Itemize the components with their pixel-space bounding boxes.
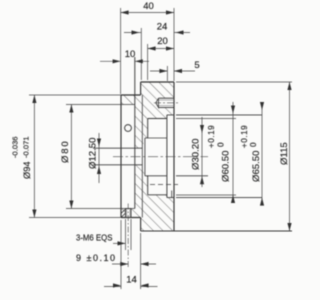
dim Ø80: line and arrows	[70, 105, 72, 209]
part outline: hub left face	[120, 95, 122, 218]
svg-text:10: 10	[125, 49, 136, 60]
recess Ø65.5 top wall + extension right	[167, 114, 262, 116]
dim 10: line and outside arrows	[100, 60, 149, 62]
dim Ø60.50: line	[232, 102, 234, 201]
svg-text:Ø30.20: Ø30.20	[191, 139, 202, 170]
dim Ø60.50: outside arrows	[231, 106, 235, 204]
dim 24: extension left (flange face extended)	[140, 28, 142, 80]
dim 20: extension left	[147, 44, 149, 80]
bore Ø80 top wall + extension left	[66, 104, 135, 106]
bore Ø12.5 top wall + extension left	[93, 147, 142, 149]
part outline: hub bottom edge	[121, 217, 141, 219]
bore step verticals at x=147.7	[147, 119, 149, 195]
bore Ø60.5 bottom wall	[148, 194, 167, 196]
svg-text:Ø12.50: Ø12.50	[88, 138, 99, 169]
dim 20: line and arrows	[148, 48, 174, 50]
tapped hole M6 bottom: thread lines	[127, 209, 130, 218]
tapped hole M6 bottom: top closing line	[126, 208, 132, 210]
flange top extension for Ø115	[176, 81, 292, 83]
recess chamfer line	[171, 191, 173, 198]
chamfer ring vertical 1	[141, 95, 143, 218]
dim 40: line and arrows	[121, 12, 174, 14]
dim 9 ±0.10: line and outside arrows	[112, 263, 156, 265]
svg-text:3-M6 EQS: 3-M6 EQS	[76, 234, 112, 243]
svg-text:5: 5	[194, 60, 199, 71]
svg-text:Ø94: Ø94	[22, 161, 32, 179]
extension: hub face down	[120, 220, 122, 289]
svg-text:14: 14	[126, 275, 137, 286]
part outline: flange bottom edge plus Ø115 extension	[141, 230, 292, 232]
dim 40/24/20/5: extension right above part	[173, 8, 175, 81]
dim 5: line and outside arrows	[150, 70, 195, 72]
svg-text:+0.19: +0.19	[240, 125, 249, 148]
svg-text:Ø80: Ø80	[60, 139, 71, 163]
tapped hole M6 bottom: right wall	[130, 209, 132, 218]
svg-text:+0.19: +0.19	[207, 125, 216, 148]
leader 3-M6 EQS	[113, 242, 126, 244]
svg-text:Ø115: Ø115	[279, 142, 290, 165]
recess Ø65.5 bottom wall + extension right	[167, 197, 262, 199]
extension: flange face down	[140, 233, 142, 289]
tapped hole M6 bottom: left wall	[125, 209, 127, 218]
part outline: flange right face	[173, 82, 175, 231]
svg-text:-0.071: -0.071	[21, 136, 30, 158]
svg-text:40: 40	[143, 1, 154, 12]
radial hole in hub wall (small circle)	[125, 125, 132, 132]
tapped hole M6 right face: top wall	[159, 97, 175, 99]
tapped hole M6 bottom: centerline	[127, 204, 129, 269]
svg-text:Ø60.50: Ø60.50	[221, 151, 232, 182]
svg-text:Ø65.50: Ø65.50	[251, 151, 262, 182]
dim Ø65.50: outside arrows	[260, 102, 264, 206]
dim 24: line and outside arrows	[124, 32, 190, 34]
extension: hole walls down	[126, 219, 132, 250]
svg-text:20: 20	[157, 36, 168, 47]
part outline: flange top edge	[141, 81, 174, 83]
tapped hole M6 right face: thread lines	[159, 100, 175, 106]
dim Ø12.50: line	[98, 133, 100, 183]
tapped hole M6 right face: axis centerline	[154, 102, 178, 104]
svg-text:-0.036: -0.036	[10, 136, 19, 158]
bore Ø60.5 extension lines right	[176, 119, 236, 196]
dim Ø94: extension bottom	[29, 217, 121, 219]
dim Ø65.50: line	[261, 102, 263, 205]
dim 14: line and outside arrows	[104, 286, 158, 288]
bore Ø80 bottom wall + extension left	[66, 208, 135, 210]
dim Ø94: line and arrows	[33, 95, 35, 218]
hatched section: hub+flange bottom half	[131, 165, 174, 231]
dim Ø115: line and arrows	[289, 82, 291, 231]
hatched section: hub+flange top half	[121, 82, 174, 148]
svg-text:0: 0	[217, 142, 226, 147]
recess Ø65.5 step face	[166, 115, 168, 198]
part outline: hub top edge	[121, 94, 141, 96]
dim Ø30.20: outside arrows	[200, 125, 204, 184]
svg-text:0: 0	[249, 142, 258, 147]
bore Ø80 end face	[134, 57, 136, 209]
svg-text:9 ±0.10: 9 ±0.10	[76, 253, 116, 263]
dim Ø30.20: line	[201, 117, 203, 187]
dim 5: extension left	[166, 66, 168, 81]
bore Ø60.5 top wall	[148, 118, 167, 120]
bore Ø30.2 bottom silhouette + extension right	[145, 175, 208, 177]
svg-text:24: 24	[157, 22, 168, 33]
part outline: flange left face bottom	[140, 218, 142, 232]
dim Ø94: extension top	[29, 94, 121, 96]
main horizontal centerline	[113, 156, 208, 158]
bore Ø30.2 top silhouette	[145, 137, 167, 139]
bore Ø12.5 bottom wall + extension left	[93, 164, 142, 166]
tapped hole M6 right face: bottom wall	[159, 107, 175, 109]
tapped hole M6 right face: drill point	[156, 98, 159, 107]
dim Ø12.50: outside arrows	[97, 139, 101, 175]
hatched section: hub bottom-left piece	[121, 209, 125, 217]
part outline: flange left face top	[140, 82, 142, 95]
hidden dashed line lower bore	[150, 184, 178, 186]
dim 40: extension left (shared with part face)	[120, 8, 122, 94]
chamfer ring vertical 2	[144, 138, 146, 176]
